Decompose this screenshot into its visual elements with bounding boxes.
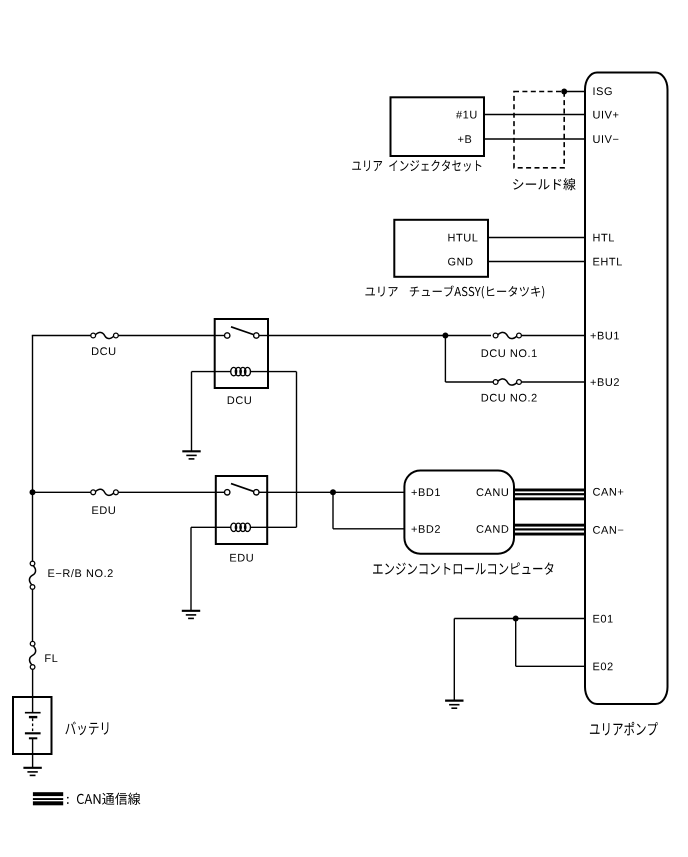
urea pump box xyxy=(585,73,668,705)
pin HTL xyxy=(593,234,614,242)
injector set box xyxy=(391,97,485,156)
ground (battery) xyxy=(23,767,41,769)
pin #1U xyxy=(456,111,476,119)
wire: branch down to +BD2 xyxy=(332,492,334,529)
wire: GND to EHTL xyxy=(488,261,586,263)
wire: E01 horizontal xyxy=(454,618,586,620)
label DCU NO.2 xyxy=(482,394,537,402)
relay DCU coil wire right xyxy=(250,371,297,373)
wire: E01 to ground xyxy=(453,619,455,701)
pin EHTL xyxy=(593,258,622,266)
node: +BD1/+BD2 branch junction xyxy=(330,489,336,495)
pin HTUL xyxy=(448,234,477,242)
fuse FL xyxy=(30,641,35,646)
wire: battery to ground xyxy=(32,738,34,767)
relay EDU coil wire right xyxy=(250,526,297,528)
wire: coil tie vertical (DCU coil to EDU coil) xyxy=(296,372,298,528)
relay EDU switch blade xyxy=(231,484,253,492)
relay DCU box xyxy=(215,319,268,388)
wire: DCU feed horizontal (+BU1 line) xyxy=(32,335,91,337)
label EDU (relay) xyxy=(230,554,253,562)
battery box xyxy=(13,697,52,754)
wire: EDU switch interior stubs xyxy=(216,491,225,493)
relay DCU coil xyxy=(231,367,251,375)
pin CANU xyxy=(477,488,508,496)
wire: #1U to UIV+ xyxy=(484,114,586,116)
fuse E-R/B NO.2 xyxy=(30,561,35,566)
wire: HTUL to HTL xyxy=(488,237,586,239)
relay EDU box xyxy=(216,476,267,544)
wire: EDU feed horizontal xyxy=(33,491,91,493)
fuse DCU NO.2 xyxy=(493,380,498,385)
wire: +BD2 horizontal xyxy=(333,528,404,530)
node: bus junction at EDU feed xyxy=(30,489,36,495)
relay DCU switch contacts xyxy=(225,333,230,338)
pin +B xyxy=(458,135,471,143)
ground (DCU coil) xyxy=(182,450,200,452)
label shield wire (katakana) xyxy=(513,178,575,190)
pin UIV- xyxy=(593,135,618,143)
wire: left +B bus vertical xyxy=(32,336,34,562)
relay DCU coil wire left xyxy=(192,371,232,373)
pin +BU1 xyxy=(591,332,619,340)
label DCU (fuse) xyxy=(92,347,115,355)
wire: +BU2 horizontal xyxy=(445,381,493,383)
battery cell plates xyxy=(25,712,41,714)
label E-R/B NO.2 xyxy=(48,569,112,577)
relay DCU switch blade xyxy=(231,327,253,335)
ECU box (engine control computer) xyxy=(404,471,514,554)
label injector set (katakana) xyxy=(352,160,481,172)
urea tube assy box xyxy=(394,220,488,277)
CAN bus band CAND-CAN- xyxy=(514,524,586,527)
wire: ISG to shield xyxy=(564,91,586,93)
wire: DCU switch interior stubs xyxy=(215,335,225,337)
CAN bus band CANU-CAN+ xyxy=(514,489,586,492)
label FL xyxy=(45,654,57,662)
pin ISG xyxy=(594,87,612,95)
label tube assy (katakana) xyxy=(365,285,544,298)
ground (E01) xyxy=(445,699,463,701)
pin +BD2 xyxy=(412,525,440,533)
label urea pump (katakana) xyxy=(590,722,658,736)
pin UIV+ xyxy=(593,111,618,119)
wire: branch down to +BU2 xyxy=(444,336,446,383)
wire: FL to battery xyxy=(32,669,34,712)
label EDU (fuse) xyxy=(92,506,115,514)
wire: +B to UIV- xyxy=(484,138,586,140)
fuse DCU xyxy=(91,333,96,338)
relay EDU switch contacts xyxy=(225,490,230,495)
label DCU (relay) xyxy=(228,396,251,404)
ground (EDU coil) xyxy=(182,610,200,612)
wire: DCU coil to ground xyxy=(191,372,193,451)
wire: EDU coil to ground xyxy=(190,527,192,610)
pin +BU2 xyxy=(591,378,619,386)
node: shield junction dot xyxy=(561,89,567,95)
pin E02 xyxy=(593,663,612,671)
label battery (katakana) xyxy=(65,721,108,735)
pin CAN+ xyxy=(593,488,623,496)
fuse DCU NO.1 xyxy=(493,333,498,338)
relay EDU coil wire left xyxy=(191,526,231,528)
node: E01/E02 junction xyxy=(513,616,519,622)
wire: E02 horizontal xyxy=(516,665,586,667)
fuse EDU xyxy=(91,490,96,495)
legend text CAN communication line (katakana+kanji) xyxy=(67,793,140,805)
shield dashed box xyxy=(514,92,564,168)
legend CAN bus symbol xyxy=(33,792,63,796)
label ECU (katakana) xyxy=(373,562,553,574)
pin CAN- xyxy=(593,526,623,534)
pin GND xyxy=(448,258,472,266)
node: +BU1/+BU2 branch junction xyxy=(442,333,448,339)
wire: branch down to E02 xyxy=(515,619,517,667)
pin CAND xyxy=(477,525,509,533)
label DCU NO.1 xyxy=(482,349,537,357)
pin E01 xyxy=(593,615,612,623)
relay EDU coil xyxy=(231,523,251,531)
pin +BD1 xyxy=(412,488,440,496)
